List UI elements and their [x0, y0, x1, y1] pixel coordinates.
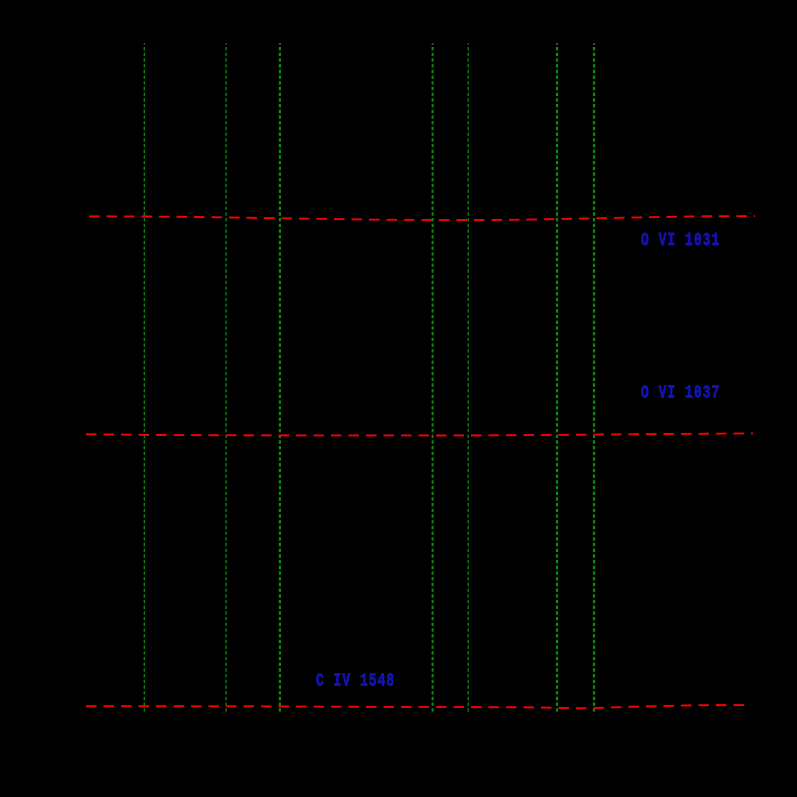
svg-text:O VI 1031: O VI 1031	[641, 230, 720, 251]
red dashed continuum level, O VI 1031 panel	[89, 216, 755, 220]
svg-text:O VI 1037: O VI 1037	[641, 383, 720, 404]
green dotted velocity-component marker line 6 (thick, x=557)	[556, 43, 558, 712]
green dotted velocity-component marker line 5 (thin, x=468)	[467, 43, 469, 712]
red dashed continuum level, C IV 1548 panel	[86, 705, 750, 708]
green dotted velocity-component marker line 7 (thick, x=594)	[593, 43, 595, 712]
green dotted velocity-component marker line 1 (thin, x=144)	[143, 43, 145, 712]
red dashed continuum level, O VI 1037 panel	[86, 433, 753, 435]
green dotted velocity-component marker line 2 (thin, x=226)	[225, 43, 227, 712]
svg-text:C IV 1548: C IV 1548	[316, 670, 395, 691]
green dotted velocity-component marker line 4 (thick, x=433)	[432, 43, 434, 712]
green dotted velocity-component marker line 3 (thick, x=280)	[279, 43, 281, 712]
